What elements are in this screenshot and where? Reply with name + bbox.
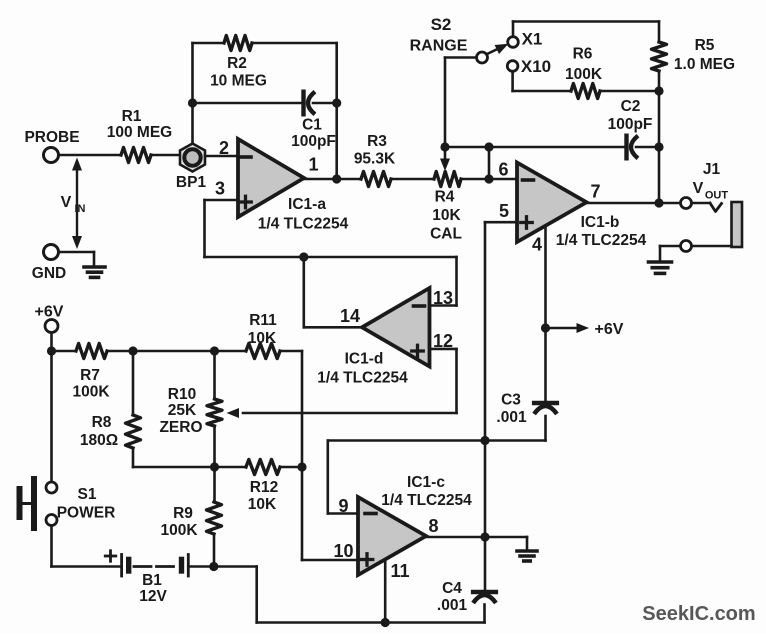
switch S1 plunger: [20, 479, 35, 528]
label VOUT: [693, 180, 729, 202]
wire drop to pin 6: [488, 147, 491, 179]
node C1 right junction: [332, 98, 341, 107]
capacitor C3: [534, 403, 557, 414]
plus pin3 IC1-a: [240, 196, 252, 208]
wire IC1-a out to R3: [304, 178, 361, 181]
svg-text:GND: GND: [32, 265, 66, 282]
svg-text:6: 6: [498, 160, 508, 180]
label R7 value: [72, 384, 110, 401]
node +6V junction b: [47, 346, 56, 355]
label PROBE: [24, 129, 79, 146]
wire +6V down: [50, 333, 53, 352]
svg-text:.001: .001: [496, 409, 527, 426]
svg-text:OUT: OUT: [705, 190, 729, 202]
svg-text:2: 2: [219, 138, 229, 158]
node buffer junction: [299, 252, 308, 261]
svg-text:1/4 TLC2254: 1/4 TLC2254: [381, 492, 472, 509]
label +6V (supply): [35, 304, 64, 321]
wire J1 sleeve to body: [692, 245, 732, 248]
potentiometer R10: [207, 399, 222, 426]
svg-text:R8: R8: [92, 414, 112, 431]
plus pin10 IC1-c: [361, 554, 373, 566]
wire R8 bottom: [133, 448, 215, 467]
svg-text:10: 10: [333, 541, 353, 561]
node R10 bottom junction: [210, 462, 219, 471]
label RANGE: [410, 38, 468, 55]
wire R10 wiper line: [243, 412, 457, 415]
wire top rail to R5: [658, 22, 661, 43]
R10 wiper arrow: [227, 408, 240, 418]
capacitor C1: [304, 92, 316, 115]
svg-text:180Ω: 180Ω: [80, 432, 118, 449]
svg-text:IC1-a: IC1-a: [288, 196, 326, 213]
switch S2 blade arrow: [487, 44, 509, 54]
connector J1 body: [732, 202, 743, 247]
wire pin13 stub: [430, 304, 457, 307]
svg-text:R3: R3: [367, 133, 387, 150]
pin 5 label: [499, 201, 509, 221]
label S1: [78, 486, 97, 503]
R4 wiper arrow: [440, 159, 450, 172]
svg-text:100pF: 100pF: [608, 116, 653, 133]
label R5: [695, 37, 715, 54]
wire pin8 output: [426, 536, 527, 539]
node pin11 bottom junction: [381, 618, 390, 627]
pin 14 label: [340, 306, 360, 326]
node battery junction: [209, 562, 218, 571]
wire S2 common down to R4 wiper: [444, 58, 447, 160]
wire C3 bottom: [328, 416, 546, 441]
node C3/pin5 rail junction: [480, 436, 489, 445]
svg-text:S2: S2: [431, 15, 452, 34]
switch S1 bottom contact: [46, 515, 57, 526]
wire S1 to battery: [52, 526, 121, 567]
switch S2 contact X10: [507, 61, 518, 72]
svg-text:5: 5: [499, 201, 509, 221]
wire R12 to rail: [280, 466, 302, 469]
capacitor C2: [627, 136, 639, 159]
wire gnd terminal to ground: [59, 252, 95, 265]
svg-text:V: V: [61, 194, 72, 211]
pin 4 label: [532, 235, 542, 255]
node GND input terminal: [44, 245, 59, 260]
node PROBE input terminal: [44, 148, 59, 163]
label R1: [122, 108, 142, 125]
label R9: [173, 505, 193, 522]
pin 13 label: [433, 288, 453, 308]
node R10 top junction: [210, 346, 219, 355]
wire pin12 stub: [430, 348, 457, 351]
wire junction to R10 node: [133, 350, 215, 353]
wire R9 top: [213, 467, 216, 502]
wire X1 to top rail: [513, 22, 659, 37]
wire C4 bottom: [483, 605, 486, 623]
svg-text:IN: IN: [75, 203, 86, 215]
svg-text:B1: B1: [142, 572, 162, 589]
svg-text:R9: R9: [173, 505, 193, 522]
switch S2 contact X1: [508, 37, 519, 48]
label R4: [435, 189, 455, 206]
svg-text:IC1-d: IC1-d: [345, 351, 384, 368]
watermark SeekIC.com: [642, 603, 755, 625]
svg-text:R5: R5: [695, 37, 715, 54]
svg-text:10K: 10K: [248, 330, 277, 347]
label +6V (right): [595, 321, 624, 338]
wire X10 to R6: [513, 90, 571, 93]
svg-text:.001: .001: [437, 597, 468, 614]
svg-text:100pF: 100pF: [291, 133, 336, 150]
label IC1-c: [407, 474, 445, 491]
switch S2 common contact: [477, 52, 488, 63]
svg-text:R10: R10: [168, 386, 196, 403]
pin 2 label: [219, 138, 229, 158]
node C1 left junction: [188, 98, 197, 107]
wire R11 to right rail: [280, 350, 302, 353]
wire pin9 up: [328, 441, 358, 514]
op-amp U1 IC1-b: [517, 163, 587, 243]
svg-text:R2: R2: [227, 55, 247, 72]
node R5/R6 junction: [654, 86, 663, 95]
label R10: [168, 386, 196, 403]
wire BP1 to pin 2: [205, 155, 238, 158]
resistor R7: [76, 344, 107, 359]
wire C2 line left: [445, 146, 627, 149]
minus pin9 IC1-c: [365, 512, 376, 516]
label R3 value 95.3K: [354, 151, 396, 168]
label B1: [142, 572, 162, 589]
wire pin3 stub: [205, 199, 239, 202]
resistor R12: [246, 460, 280, 475]
label R12 value 10K: [248, 496, 277, 513]
wire pin5 down rail: [484, 222, 487, 590]
label C1 value 100pF: [291, 133, 336, 150]
svg-text:4: 4: [532, 235, 542, 255]
wire +6V to S1: [50, 351, 53, 482]
wire J1 tip contact: [692, 203, 722, 212]
ground (probe return): [84, 267, 105, 277]
node pin8 junction: [480, 532, 489, 541]
resistor R11: [246, 344, 280, 359]
wire feedback top left: [193, 42, 225, 45]
wire pin12 down to wiper line: [455, 349, 458, 413]
wire to R11: [215, 350, 247, 353]
wire R1 to BP1: [151, 154, 181, 157]
label C1: [302, 117, 322, 134]
wire buffer line: [205, 256, 457, 259]
wire C1 right: [313, 102, 337, 105]
wire probe to R1: [59, 154, 122, 157]
svg-text:R1: R1: [122, 108, 142, 125]
wire R7 to R8 node: [107, 350, 133, 353]
svg-text:3: 3: [215, 179, 225, 199]
label C2 value 100pF: [608, 116, 653, 133]
wire right rail down: [301, 351, 304, 560]
label R8: [92, 414, 112, 431]
svg-text:C1: C1: [302, 117, 322, 134]
label GND: [32, 265, 66, 282]
svg-text:1.0 MEG: 1.0 MEG: [674, 56, 735, 73]
svg-text:+6V: +6V: [35, 304, 64, 321]
svg-text:X10: X10: [521, 57, 551, 76]
node +6V junction: [541, 323, 550, 332]
label C4: [442, 580, 462, 597]
wire BP1 up to feedback: [191, 43, 194, 144]
label R2 value 10 MEG: [210, 73, 267, 90]
node IC1-a output junction: [332, 174, 341, 183]
label R2: [227, 55, 247, 72]
wire pin4 down: [544, 227, 547, 402]
wire pin7 output: [587, 202, 680, 205]
wire to R7: [52, 350, 77, 353]
svg-text:10 MEG: 10 MEG: [210, 73, 267, 90]
minus pin6 IC1-b: [523, 178, 534, 182]
svg-text:9: 9: [338, 496, 348, 516]
battery B1 plus sign: [105, 551, 116, 562]
op-amp U1 IC1-d: [362, 288, 430, 367]
pin 8 label: [428, 516, 438, 536]
wire S2 common left: [445, 56, 477, 59]
label S2: [431, 15, 452, 34]
pin 12 label: [433, 331, 453, 351]
op-amp U1 IC1-c: [358, 497, 426, 575]
ground (reference): [517, 551, 537, 561]
resistor R3: [361, 172, 391, 187]
plus pin5 IC1-b: [521, 217, 533, 229]
svg-text:PROBE: PROBE: [24, 129, 79, 146]
svg-text:CAL: CAL: [430, 226, 462, 243]
node R12/rail junction: [297, 462, 306, 471]
pin 11 label: [390, 561, 409, 581]
connector J1 tip terminal: [681, 198, 692, 209]
svg-text:ZERO: ZERO: [159, 419, 202, 436]
node S2/C2 junction: [440, 142, 449, 151]
svg-text:7: 7: [590, 182, 600, 202]
svg-text:R6: R6: [573, 46, 593, 63]
label R5 value 1.0 MEG: [674, 56, 735, 73]
label POWER: [57, 505, 116, 522]
label IC1-a: [288, 196, 326, 213]
label BP1: [176, 174, 207, 191]
label R10 ZERO: [159, 419, 202, 436]
svg-text:SeekIC.com: SeekIC.com: [642, 603, 755, 625]
wire C1 left: [193, 102, 304, 105]
label R11: [249, 312, 277, 329]
resistor R1: [121, 148, 151, 163]
node pin6 junction: [484, 174, 493, 183]
svg-text:25K: 25K: [168, 402, 197, 419]
potentiometer R4: [434, 172, 461, 187]
label C2: [621, 98, 641, 115]
node Vin arrow: [72, 158, 82, 250]
label X1: [522, 30, 543, 49]
wire pin10 from rail: [302, 559, 358, 562]
svg-text:8: 8: [428, 516, 438, 536]
binding post BP1: [180, 144, 205, 172]
svg-text:12V: 12V: [139, 588, 167, 605]
svg-text:IC1-b: IC1-b: [581, 214, 620, 231]
svg-text:R7: R7: [80, 367, 100, 384]
svg-text:100K: 100K: [565, 66, 603, 83]
pin 6 label: [498, 160, 508, 180]
svg-text:J1: J1: [703, 161, 721, 178]
wire C2 right: [636, 146, 659, 149]
wire R3 to R4: [391, 178, 434, 181]
label C4 value .001: [437, 597, 468, 614]
svg-text:IC1-c: IC1-c: [407, 474, 445, 491]
pin 9 label: [338, 496, 348, 516]
label R1 value 100 MEG: [107, 124, 172, 141]
wire R10 top stub: [213, 351, 216, 399]
label R11 value 10K: [248, 330, 277, 347]
plus pin12 IC1-d: [412, 345, 424, 357]
label R12: [250, 479, 278, 496]
resistor R8: [126, 415, 141, 448]
label C3: [501, 392, 521, 409]
wire pin11 down: [384, 560, 387, 623]
svg-text:14: 14: [340, 306, 360, 326]
wire R10 bottom stub: [213, 426, 216, 467]
wire X10 down: [511, 72, 514, 92]
label IC1-a 1/4 TLC2254: [258, 216, 349, 233]
svg-text:10K: 10K: [432, 207, 461, 224]
svg-text:100K: 100K: [72, 384, 110, 401]
connector J1 sleeve terminal: [681, 241, 692, 252]
wire down to C2 level: [658, 91, 661, 147]
label J1: [703, 161, 721, 178]
wire bottom rail: [214, 567, 485, 623]
svg-text:BP1: BP1: [176, 174, 207, 191]
wire pin5 stub: [485, 221, 517, 224]
label IC1-b 1/4 TLC2254: [556, 232, 647, 249]
wire R8 top: [132, 351, 135, 415]
wire IC1-d output: [304, 257, 362, 327]
label R9 value 100K: [160, 522, 198, 539]
label IC1-d 1/4 TLC2254: [317, 370, 408, 387]
switch S1 top contact: [46, 482, 57, 493]
ground (J1 sleeve): [649, 262, 672, 273]
node +6V supply terminal: [45, 320, 58, 333]
resistor R5: [652, 42, 667, 71]
svg-text:13: 13: [433, 288, 453, 308]
label R8 value 180ohm: [80, 432, 118, 449]
svg-text:1/4 TLC2254: 1/4 TLC2254: [556, 232, 647, 249]
pin 3 label: [215, 179, 225, 199]
pin 1 label: [308, 155, 318, 175]
resistor R9: [207, 502, 222, 534]
svg-text:R12: R12: [250, 479, 278, 496]
node output junction: [654, 198, 663, 207]
svg-text:R11: R11: [249, 312, 277, 329]
label IC1-b: [581, 214, 620, 231]
op-amp U1 IC1-a: [238, 139, 304, 217]
label R6: [573, 46, 593, 63]
svg-text:RANGE: RANGE: [410, 38, 468, 55]
label IC1-c 1/4 TLC2254: [381, 492, 472, 509]
resistor R6: [571, 84, 600, 99]
node C2 right junction: [654, 142, 663, 151]
label R4 value 10K: [432, 207, 461, 224]
pin 10 label: [333, 541, 353, 561]
node R7/R8 junction: [128, 346, 137, 355]
svg-text:C4: C4: [442, 580, 462, 597]
svg-text:10K: 10K: [248, 496, 277, 513]
label R4 CAL: [430, 226, 462, 243]
wire C2 junction down to output: [658, 147, 661, 203]
capacitor C4: [473, 592, 496, 603]
label B1 value 12V: [139, 588, 167, 605]
wire feedback right vertical: [335, 43, 338, 179]
label R3: [367, 133, 387, 150]
svg-text:100 MEG: 100 MEG: [107, 124, 172, 141]
label VIN: [61, 194, 86, 215]
svg-text:+6V: +6V: [595, 321, 624, 338]
svg-text:R4: R4: [435, 189, 455, 206]
minus pin2 IC1-a: [240, 155, 251, 159]
minus pin13 IC1-d: [414, 304, 425, 308]
wire R6 to R5 junction: [600, 90, 659, 93]
wire to R12: [215, 466, 247, 469]
svg-text:11: 11: [390, 561, 409, 581]
+6V arrow: [546, 323, 590, 333]
svg-text:1: 1: [308, 155, 318, 175]
wire J1 sleeve to ground: [660, 246, 681, 260]
wire R5 to junction: [658, 71, 661, 91]
wire R9 bottom: [213, 534, 216, 567]
wire battery to R9 node: [190, 565, 214, 568]
svg-text:1/4 TLC2254: 1/4 TLC2254: [317, 370, 408, 387]
label R6 value 100K: [565, 66, 603, 83]
wire feedback top right: [252, 42, 337, 45]
svg-text:C3: C3: [501, 392, 521, 409]
svg-text:100K: 100K: [160, 522, 198, 539]
svg-text:C2: C2: [621, 98, 641, 115]
pin 7 label: [590, 182, 600, 202]
svg-text:POWER: POWER: [57, 505, 116, 522]
wire pin3 down: [203, 200, 206, 257]
svg-text:X1: X1: [522, 30, 543, 49]
svg-text:S1: S1: [78, 486, 97, 503]
svg-text:1/4 TLC2254: 1/4 TLC2254: [258, 216, 349, 233]
battery B1: [122, 555, 189, 577]
label R7: [80, 367, 100, 384]
label IC1-d: [345, 351, 384, 368]
label X10: [521, 57, 551, 76]
resistor R2: [224, 36, 252, 51]
svg-text:V: V: [693, 180, 704, 197]
wire pin13 feedback down: [455, 257, 458, 306]
wire ground stem: [526, 537, 529, 549]
label R10 value 25K: [168, 402, 197, 419]
svg-text:95.3K: 95.3K: [354, 151, 396, 168]
label C3 value .001: [496, 409, 527, 426]
node pin6 drop junction: [484, 142, 493, 151]
wire R4 to pin 6: [461, 178, 517, 181]
